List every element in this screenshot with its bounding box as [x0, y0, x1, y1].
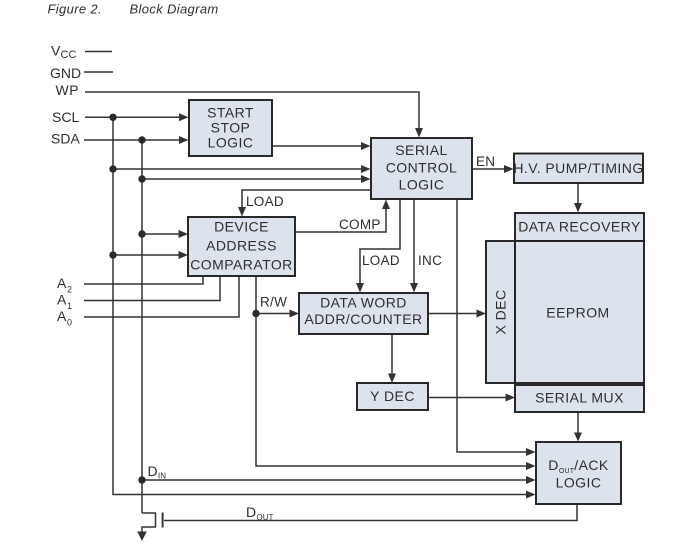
wire data word addr/counter to X DEC: [428, 310, 486, 318]
svg-text:D: D: [246, 504, 256, 520]
svg-text:INC: INC: [418, 253, 442, 268]
svg-text:R/W: R/W: [260, 295, 287, 310]
label LOAD (data word): [362, 253, 400, 268]
junction dot SCL-serial: [109, 165, 116, 172]
wire WP to serial control logic top: [85, 92, 423, 138]
svg-text:Figure 2.: Figure 2.: [48, 2, 102, 17]
svg-text:DEVICE: DEVICE: [214, 219, 269, 235]
svg-text:A: A: [57, 308, 67, 324]
junction dot SCL main: [109, 114, 116, 121]
block DATA WORD ADDR/COUNTER: [299, 293, 428, 334]
label INC: [418, 253, 442, 268]
svg-text:EEPROM: EEPROM: [546, 305, 609, 321]
wire LOAD from serial control logic to data word addr/counter: [356, 199, 400, 293]
wire SCL branch to serial control logic: [113, 165, 371, 173]
svg-text:EN: EN: [476, 154, 495, 169]
block DOUT/ACK LOGIC: [536, 442, 621, 504]
transistor output MOSFET drain/channel/source: [137, 513, 155, 541]
svg-text:DATA WORD: DATA WORD: [320, 295, 407, 311]
svg-text:SERIAL MUX: SERIAL MUX: [535, 390, 624, 406]
block DEVICE ADDRESS COMPARATOR: [188, 217, 295, 276]
svg-text:LOGIC: LOGIC: [208, 135, 254, 151]
wire serial mux to Dout/ack logic: [574, 412, 582, 442]
svg-text:Block Diagram: Block Diagram: [130, 2, 219, 17]
block Y DEC: [357, 383, 428, 410]
label EN: [476, 154, 495, 169]
block DATA RECOVERY: [515, 213, 644, 241]
wire SCL branch to comparator: [113, 251, 188, 259]
wire A2 to comparator bottom: [84, 276, 203, 284]
svg-text:0: 0: [67, 318, 72, 328]
wire serial control logic third output down to Dout/ack logic: [457, 199, 536, 456]
junction dot SDA main: [138, 136, 145, 143]
svg-text:OUT: OUT: [257, 513, 274, 522]
svg-text:LOGIC: LOGIC: [399, 177, 445, 193]
svg-text:ADDR/COUNTER: ADDR/COUNTER: [304, 311, 422, 327]
wire A1 to comparator bottom: [84, 276, 220, 301]
wire INC from serial control logic to data word addr/counter: [410, 199, 418, 293]
svg-text:GND: GND: [50, 65, 81, 81]
wire HV pump to data recovery: [574, 183, 582, 213]
wire SDA vertical bus down to transistor drain: [141, 140, 143, 513]
block HV PUMP/TIMING: [513, 154, 643, 184]
svg-text:SCL: SCL: [52, 109, 79, 125]
pin GND label: [50, 65, 81, 81]
label R/W: [260, 295, 287, 310]
pin A0 label: [57, 308, 72, 328]
svg-text:Y DEC: Y DEC: [370, 388, 415, 404]
junction dot DIN: [138, 476, 145, 483]
junction dot SDA-comparator: [138, 230, 145, 237]
svg-text:COMP: COMP: [339, 217, 381, 232]
block START STOP LOGIC: [189, 100, 272, 156]
svg-text:DOUT/ACK: DOUT/ACK: [548, 457, 609, 475]
wire data word addr/counter to Y DEC: [388, 334, 396, 383]
block SERIAL MUX: [515, 385, 644, 412]
pin SDA label: [51, 131, 80, 147]
svg-text:2: 2: [67, 285, 72, 295]
title: [48, 2, 219, 17]
label DIN: [148, 463, 167, 481]
wire start stop logic output to serial control logic: [272, 142, 371, 150]
label LOAD (comparator): [246, 194, 284, 209]
svg-text:DATA RECOVERY: DATA RECOVERY: [518, 219, 641, 235]
svg-text:LOAD: LOAD: [246, 194, 284, 209]
svg-text:H.V. PUMP/TIMING: H.V. PUMP/TIMING: [513, 160, 643, 176]
svg-text:WP: WP: [56, 82, 80, 98]
pin A1 label: [57, 292, 72, 312]
block X DEC: [486, 241, 515, 383]
wire SDA branch to comparator: [142, 230, 188, 238]
wire DIN from SDA bus to Dout/ack logic: [142, 476, 536, 484]
wire COMP from comparator to serial control logic: [295, 200, 390, 233]
block SERIAL CONTROL LOGIC: [371, 138, 472, 199]
svg-text:SERIAL: SERIAL: [395, 142, 448, 158]
wire SCL to start stop logic: [85, 113, 189, 121]
label COMP: [339, 217, 381, 232]
svg-text:STOP: STOP: [211, 120, 251, 136]
svg-text:ADDRESS: ADDRESS: [206, 238, 277, 254]
svg-text:CONTROL: CONTROL: [386, 160, 458, 176]
wire LOAD from serial control logic to device address comparator: [238, 190, 371, 217]
transistor gate bar: [162, 513, 164, 528]
pin A2 label: [57, 275, 72, 295]
wire DOUT from Dout/ack logic to transistor gate: [164, 504, 577, 521]
pin VCC label: [51, 43, 76, 62]
wire Y DEC to serial mux: [428, 394, 515, 402]
svg-text:CC: CC: [61, 49, 77, 61]
svg-text:SDA: SDA: [51, 131, 80, 147]
wire SDA branch to serial control logic: [142, 175, 371, 183]
svg-text:D: D: [148, 463, 158, 479]
wire SCL vertical bus down to Dout/ack logic: [113, 117, 536, 498]
svg-text:COMPARATOR: COMPARATOR: [190, 257, 293, 273]
svg-text:LOAD: LOAD: [362, 253, 400, 268]
junction dot SCL-comparator: [109, 251, 116, 258]
wire A0 to comparator bottom: [84, 276, 239, 317]
svg-text:A: A: [57, 292, 67, 308]
junction dot R/W: [252, 310, 259, 317]
pin VCC stub wire: [85, 51, 112, 53]
svg-text:IN: IN: [158, 472, 166, 481]
svg-text:A: A: [57, 275, 67, 291]
wire EN from serial control logic to HV pump: [472, 165, 514, 173]
wire R/W branch to data word addr/counter: [256, 310, 299, 318]
pin WP label: [56, 82, 80, 98]
pin SCL label: [52, 109, 79, 125]
svg-text:1: 1: [67, 301, 72, 311]
svg-text:V: V: [51, 43, 61, 59]
pin GND stub wire: [84, 71, 113, 73]
wire R/W vertical from comparator down to Dout/ack logic: [256, 276, 536, 470]
svg-text:LOGIC: LOGIC: [556, 475, 602, 491]
svg-text:START: START: [207, 105, 254, 121]
svg-text:X DEC: X DEC: [493, 289, 509, 334]
block EEPROM: [515, 241, 644, 383]
wire SDA to start stop logic: [84, 136, 189, 144]
junction dot SDA-serial: [138, 175, 145, 182]
label DOUT: [246, 504, 274, 522]
